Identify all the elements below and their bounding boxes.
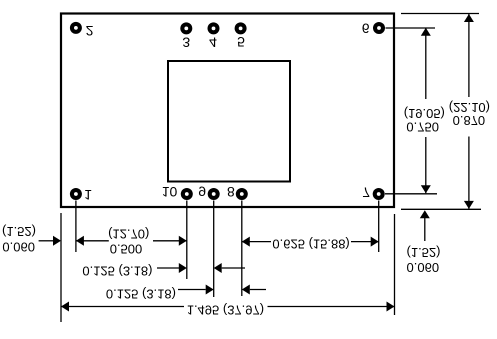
extension line below pad 9 [213, 201, 215, 298]
svg-text:0.125 (3.18): 0.125 (3.18) [106, 286, 176, 301]
dimension 0.125 (3.18) pads 10-9 [82, 263, 245, 279]
svg-text:10: 10 [162, 184, 178, 200]
svg-text:1.495 (37.97): 1.495 (37.97) [187, 303, 264, 318]
dimension 0.060 (1.52) left side [2, 224, 61, 255]
svg-text:0.500: 0.500 [110, 242, 143, 257]
svg-text:0.060: 0.060 [407, 260, 440, 275]
svg-text:1: 1 [84, 187, 92, 203]
extension line below pad 7 [378, 201, 380, 253]
extension line top right board edge [401, 13, 479, 15]
extension line from pad 7 [385, 193, 437, 195]
extension line below pad 1 [75, 201, 77, 253]
dimension 0.750 (19.05) vertical [404, 28, 445, 194]
extension line below right board edge [394, 214, 396, 315]
svg-text:7: 7 [362, 185, 370, 201]
dimension 1.495 (37.97) overall [61, 302, 395, 318]
pad 2 [70, 22, 82, 34]
svg-text:9: 9 [198, 184, 206, 200]
dimension 0.625 (15.88) [242, 237, 379, 252]
extension line below pad 10 [186, 201, 188, 280]
svg-text:(12.70): (12.70) [108, 227, 149, 242]
dimension 0.870 (22.10) vertical [449, 14, 490, 209]
extension line below left board edge [60, 213, 62, 322]
svg-text:6: 6 [362, 21, 370, 37]
pad 8 [236, 188, 248, 200]
svg-text:0.060: 0.060 [2, 240, 35, 255]
dimension 0.500 (12.70) [76, 227, 187, 257]
pad 9 [208, 188, 220, 200]
svg-text:3: 3 [182, 35, 190, 51]
pad 4 [208, 22, 220, 34]
svg-text:4: 4 [209, 35, 217, 51]
extension line below pad 8 [241, 201, 243, 297]
pad 5 [235, 22, 247, 34]
pad 7 [373, 188, 385, 200]
dimension 0.060 (1.52) right side [407, 210, 441, 275]
extension line bottom right board edge [401, 208, 481, 210]
pad 3 [180, 22, 192, 34]
pad 1 [70, 188, 82, 200]
extension line from pad 6 [386, 27, 436, 29]
pad 10 [181, 188, 193, 200]
component body window [168, 61, 290, 182]
svg-text:8: 8 [227, 184, 235, 200]
pad 6 [373, 22, 385, 34]
svg-text:(22.10): (22.10) [449, 100, 490, 115]
svg-text:0.625 (15.88): 0.625 (15.88) [272, 237, 349, 252]
svg-text:(1.52): (1.52) [407, 245, 441, 260]
svg-text:2: 2 [86, 23, 94, 39]
svg-text:0.125 (3.18): 0.125 (3.18) [82, 264, 152, 279]
svg-text:5: 5 [237, 34, 245, 50]
svg-text:(1.52): (1.52) [2, 224, 36, 239]
board outline [61, 14, 394, 208]
svg-text:(19.05): (19.05) [404, 106, 445, 121]
dimension 0.125 (3.18) pads 9-8 [106, 285, 266, 302]
